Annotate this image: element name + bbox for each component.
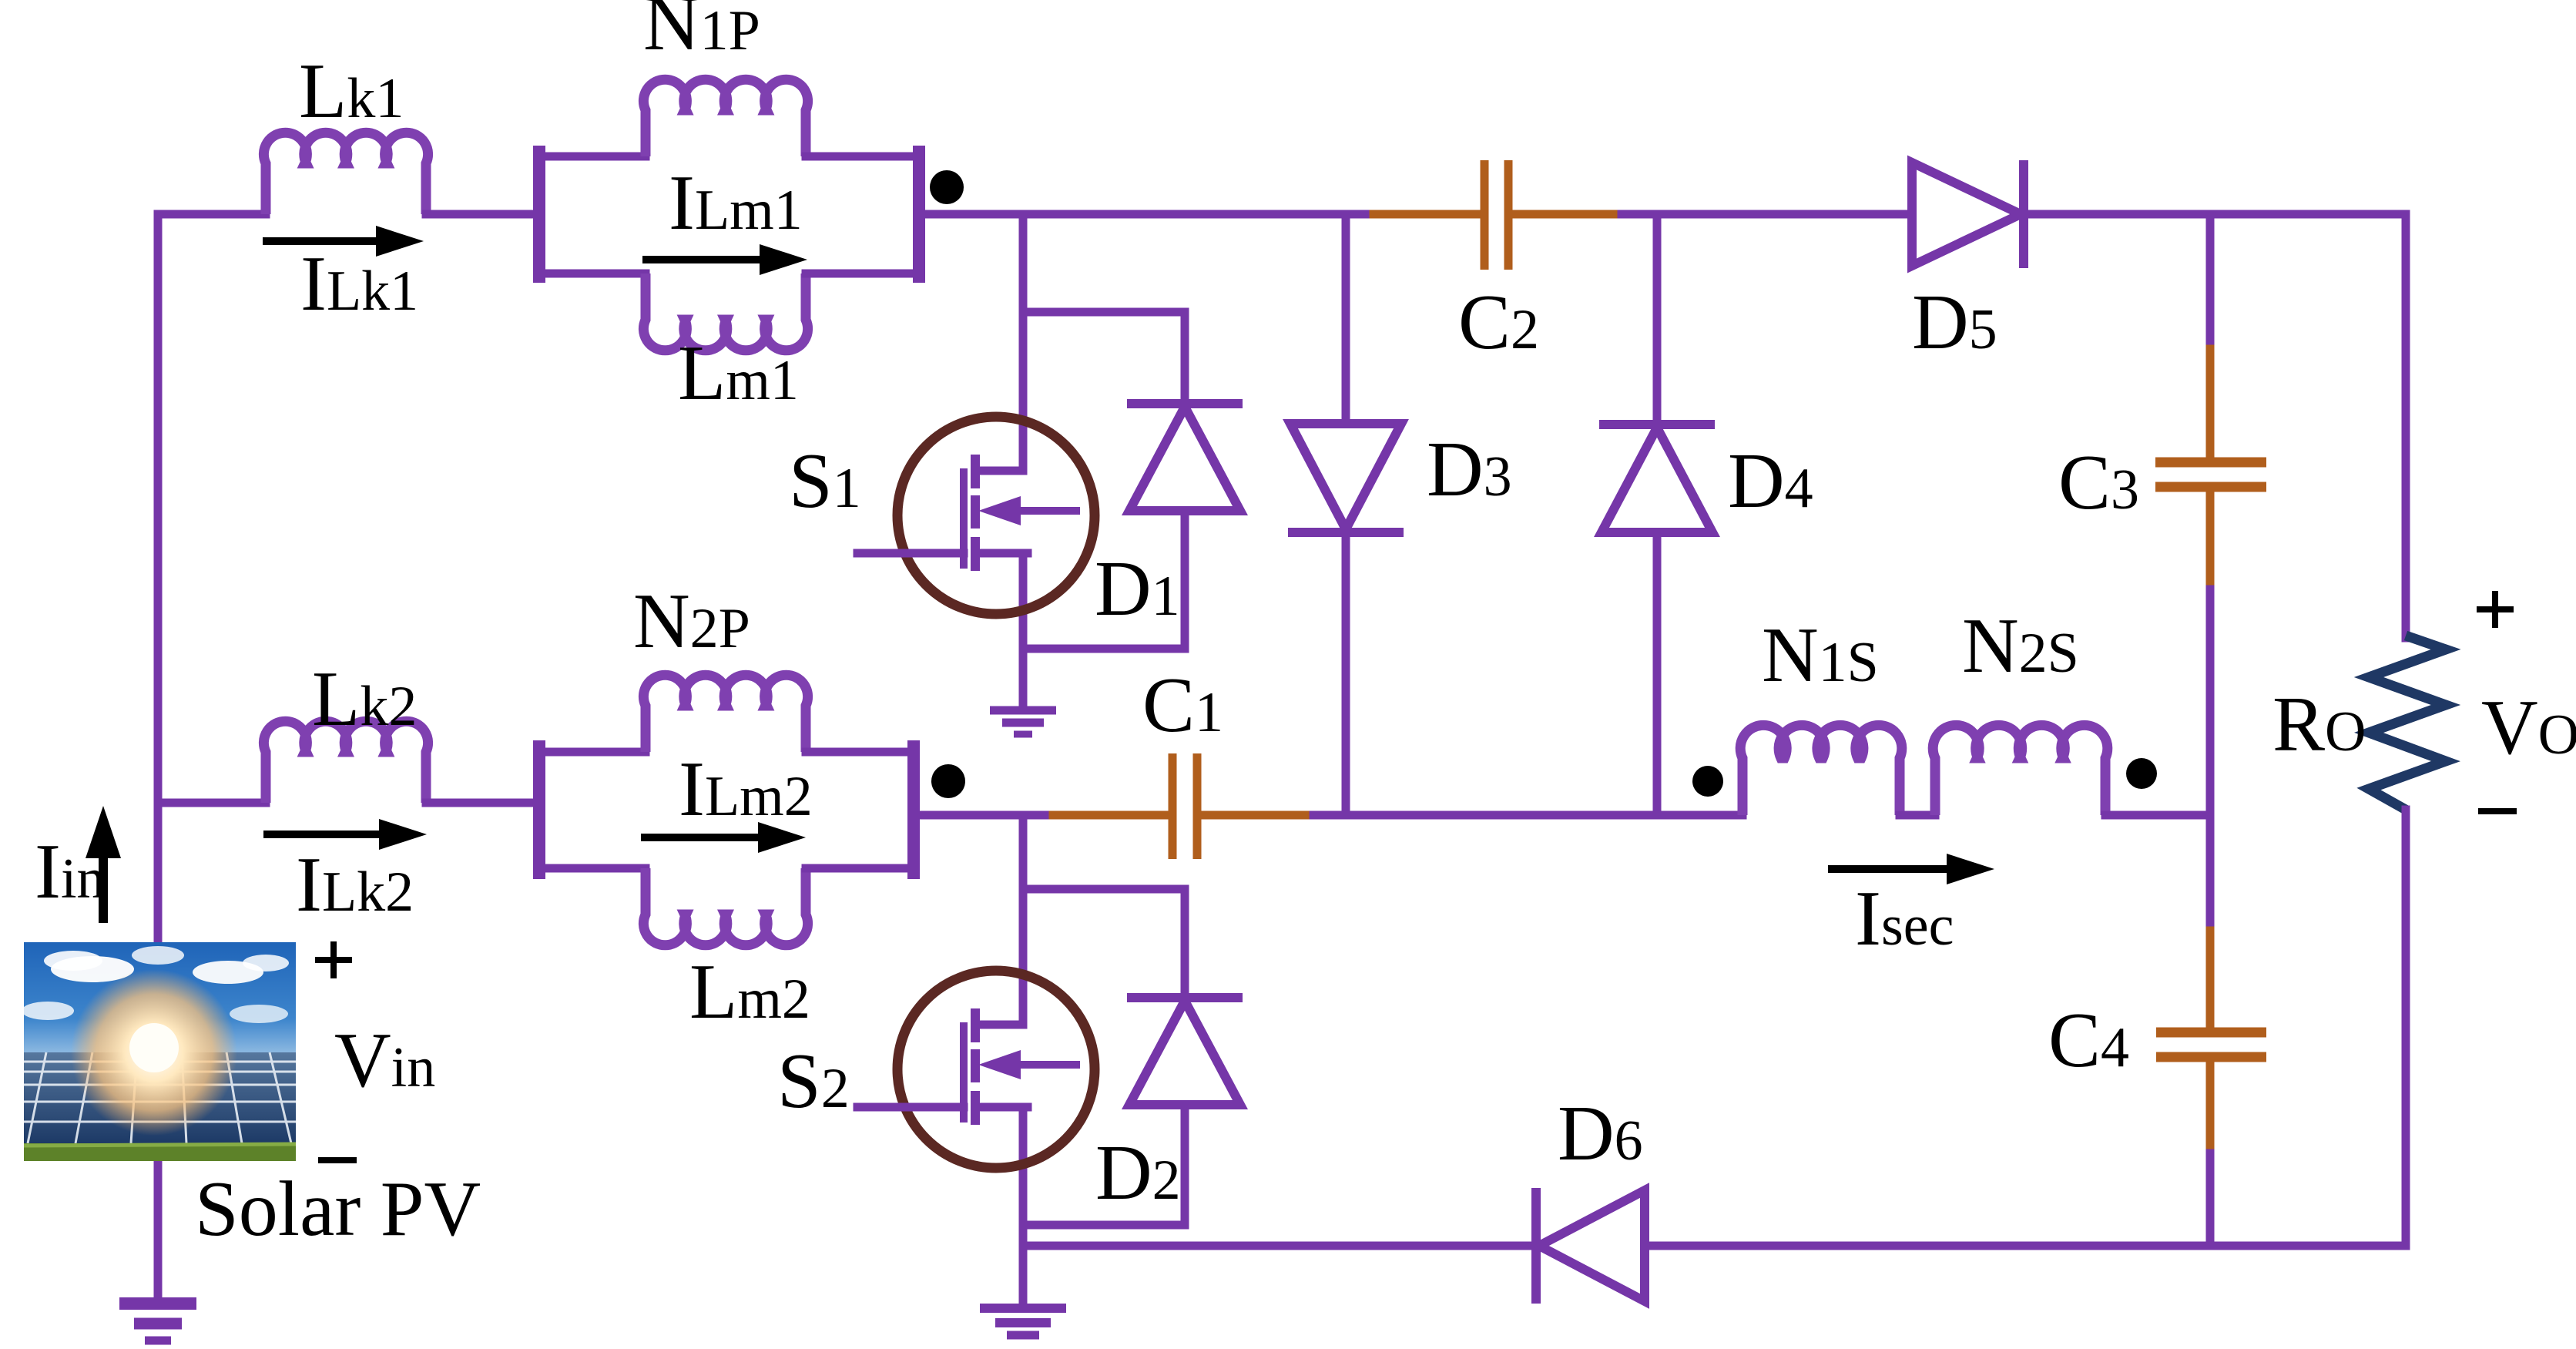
wire: S2 gate lead xyxy=(857,1103,964,1112)
current arrow Iin xyxy=(99,858,108,923)
capacitor C1 plates xyxy=(1172,753,1197,859)
wire: T2 top branch right xyxy=(806,748,914,757)
current arrow ILm2 xyxy=(641,834,758,841)
diode D5 xyxy=(1912,163,2021,266)
transistor S2 body arrow xyxy=(1014,1061,1080,1069)
wire: row1 D3 to C2 xyxy=(1346,210,1379,219)
winding N2P xyxy=(643,675,807,752)
wire: T1 top branch left xyxy=(539,153,646,161)
transistor S1 body arrow xyxy=(1014,507,1080,515)
wire: row2 C1 to D3 to D4 xyxy=(1313,811,1657,820)
transistor S2 channel dashes xyxy=(971,1008,980,1125)
transformer T2 right junction bar xyxy=(907,747,920,873)
wire: dip between N1S and N2S xyxy=(1900,811,1935,820)
capacitor C1 lead right xyxy=(1197,811,1313,820)
capacitor C2 plates xyxy=(1484,160,1508,270)
wire: S1 source to ground xyxy=(1019,553,1028,710)
winding Lm1 xyxy=(643,273,807,351)
inductor Lk2 xyxy=(263,721,428,803)
capacitor C2 lead left xyxy=(1374,210,1481,219)
wire: Lk2 to transformer T2 xyxy=(426,799,539,807)
diode D3 xyxy=(1290,424,1401,529)
wire: T1 top branch right xyxy=(806,153,919,161)
wire: row1 C2 to D4 junction xyxy=(1622,210,1657,219)
Solar PV source image xyxy=(22,942,296,1161)
wire: left rail below Solar PV to ground xyxy=(154,1158,163,1304)
transformer T1 left junction bar xyxy=(533,152,545,277)
plus sign Vin xyxy=(315,941,352,978)
node dot T2 primary polarity xyxy=(931,764,965,798)
diode D4 xyxy=(1602,428,1712,532)
transistor S1 source connector xyxy=(975,549,1028,558)
winding N1P xyxy=(643,79,807,156)
wire: S1 gate lead xyxy=(857,549,964,558)
wire: S1 drain from row1 xyxy=(1019,214,1028,466)
transistor S2 (MOSFET) body circle xyxy=(897,971,1095,1168)
node dot secondary left polarity xyxy=(1692,766,1723,797)
wire: row2 junction down to C4 xyxy=(2206,815,2215,932)
wire: right rail bottom segment xyxy=(2402,810,2410,1246)
capacitor C4 lead bottom xyxy=(2206,1062,2215,1153)
winding Lm2 xyxy=(643,868,807,945)
current arrow ILm1 xyxy=(642,256,760,263)
capacitor C4 lead top xyxy=(2206,931,2215,1032)
capacitor C3 lead top xyxy=(2206,349,2215,458)
minus sign Vin xyxy=(318,1157,357,1163)
winding N2S xyxy=(1933,725,2108,815)
node dot secondary right polarity xyxy=(2126,758,2157,789)
svg-text:N1P: N1P xyxy=(643,0,760,67)
transistor S1 drain connector xyxy=(975,467,1023,475)
diode D2 xyxy=(1129,1001,1240,1105)
ground under S2 xyxy=(980,1304,1066,1313)
wire: Lk1 to transformer T1 xyxy=(426,210,539,219)
wire: C4 bottom to bottom rail xyxy=(2206,1153,2215,1246)
wire: D2 bottom to link xyxy=(1023,1105,1185,1225)
wire: D4 corner to N1S xyxy=(1657,811,1742,820)
wire: link S2 drain to D2 top xyxy=(1023,889,1185,998)
wire: left input rail xyxy=(154,214,163,941)
transistor S1 (MOSFET) body circle xyxy=(897,417,1095,614)
wire: bottom return rail xyxy=(1023,1242,1536,1250)
transistor S2 drain connector xyxy=(975,1021,1023,1029)
current arrow ILk1 xyxy=(263,237,376,245)
wire: right rail top segment xyxy=(2402,214,2410,638)
ground under S1 xyxy=(990,706,1056,715)
wire: row2 from left rail xyxy=(158,799,266,807)
transformer T2 left junction bar xyxy=(533,747,545,873)
wire: C3 bottom to row2 junction xyxy=(2206,589,2215,815)
wire: N2S to C3 column xyxy=(2105,811,2210,820)
plus sign Vo xyxy=(2477,591,2514,628)
current arrow ILk2 xyxy=(263,831,379,838)
capacitor C3 lead bottom xyxy=(2206,492,2215,589)
resistor Ro xyxy=(2369,636,2446,810)
wire: link S1 drain to D1 top xyxy=(1023,312,1185,404)
wire: S2 drain from row2 xyxy=(1019,815,1028,1020)
wire: row1 D5 to C3 junction to top-right corner xyxy=(2024,210,2406,219)
node dot T1 primary polarity xyxy=(930,170,964,204)
wire: D3 column xyxy=(1342,214,1350,424)
capacitor C4 plates xyxy=(2156,1032,2266,1057)
capacitor C1 lead left xyxy=(1053,811,1169,820)
capacitor C3 plates xyxy=(2155,462,2266,487)
wire: T1 bottom branch right xyxy=(806,270,919,278)
wire: row1 T1 to D3 junction xyxy=(919,210,1346,219)
transistor S1 gate bar xyxy=(960,468,968,569)
ground left (Solar PV) xyxy=(119,1297,196,1310)
wire: row1 D4 to D5 xyxy=(1657,210,1912,219)
transistor S2 gate bar xyxy=(960,1022,968,1122)
wire: D4 column xyxy=(1653,214,1662,424)
wire: D1 bottom to link xyxy=(1023,511,1185,649)
wire: S2 source to bottom rail and ground xyxy=(1019,1107,1028,1305)
inductor Lk1 xyxy=(263,133,428,214)
transistor S1 channel dashes xyxy=(971,455,980,571)
wire: row2 T2 to C1 xyxy=(914,811,1058,820)
wire: C3 column purple top xyxy=(2206,214,2215,351)
current arrow Isec xyxy=(1828,865,1947,873)
transistor S2 source connector xyxy=(975,1103,1028,1112)
minus sign Vo xyxy=(2478,808,2517,814)
diode D6 xyxy=(1539,1190,1645,1301)
winding N1S xyxy=(1740,725,1902,815)
diode D1 xyxy=(1129,407,1240,511)
transformer T1 right junction bar xyxy=(913,152,925,277)
wire: T1 bottom branch left xyxy=(539,270,646,278)
wire: T2 top branch left xyxy=(539,748,646,757)
capacitor C2 lead right xyxy=(1508,210,1622,219)
wire: T2 bottom branch right xyxy=(806,864,914,873)
wire: row1 left segment xyxy=(158,210,266,219)
wire: T2 bottom branch left xyxy=(539,864,646,873)
svg-text:Solar PV: Solar PV xyxy=(195,1166,481,1253)
